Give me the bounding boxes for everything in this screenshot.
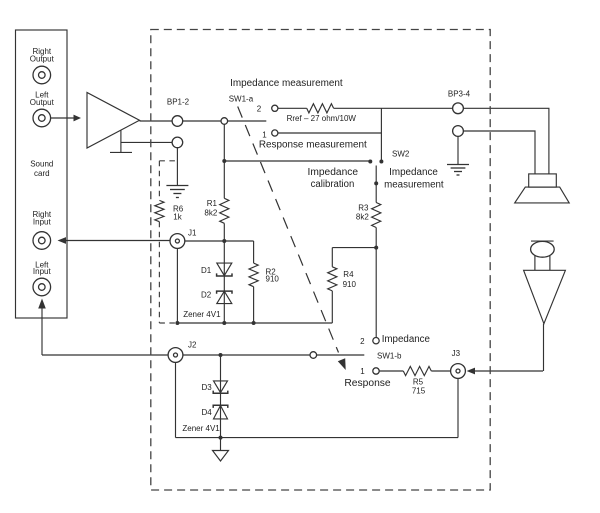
label 2 SW1-b [360,337,365,346]
binding post BP4 [453,126,464,137]
label Zener 4V1 lower [182,424,220,433]
label Impedance measurement SW2 [384,167,444,191]
svg-text:R4: R4 [343,270,354,279]
resistor R5 [403,366,431,375]
connector Left Output [33,109,51,127]
wire BP1 to SW1-a [183,120,221,122]
svg-text:BP3-4: BP3-4 [448,90,471,99]
wire amp return to BP1-2 [121,141,172,143]
wire R5 to J3 [431,370,450,372]
microphone body [524,270,566,323]
wire R4 top [331,248,333,267]
switch SW1-b common [310,352,317,359]
wire J2 left [42,354,168,356]
dashed enclosure box [151,30,490,491]
label Response position [344,378,391,389]
resistor R2 [249,263,258,287]
resistor R6 [155,200,164,221]
svg-text:D4: D4 [202,408,213,417]
wire J3 leg [457,378,459,437]
svg-text:Response: Response [344,378,391,389]
wire J1 leg [176,248,178,323]
connector J3 [451,364,466,379]
zener D2 [217,291,232,304]
wire contact1 to R5 [379,370,403,372]
svg-text:measurement: measurement [384,180,444,191]
resistor R3 [372,203,381,228]
label R6 [173,205,184,222]
wire BP4 to speaker [463,131,535,174]
node SW2 right contact [379,160,383,164]
label R4 [343,270,357,289]
wire BP3 to speaker [463,108,549,174]
label Left Output [30,91,55,108]
ground amp [110,151,132,153]
speaker LS1 magnet [529,174,557,187]
svg-text:R1: R1 [207,199,218,208]
ground BP4 [447,165,469,176]
svg-text:Input: Input [33,267,52,276]
wire contact2 to Rref [278,107,307,109]
node SW2 left contact [368,160,372,164]
wire R4 branch [332,247,376,249]
dashed inner box left upper [158,161,160,201]
node SW2 pole [374,181,378,185]
resistor R1 [220,198,229,223]
svg-text:Impedance: Impedance [382,334,431,345]
svg-text:2: 2 [360,337,365,346]
wire SW2 pole to R3 [375,183,377,202]
microphone neck [535,255,550,270]
label BP1-2 [167,98,190,107]
resistor R4 [328,267,337,291]
svg-text:1k: 1k [173,213,182,222]
wire J2 row [183,354,310,356]
label Zener 4V1 upper [183,310,221,319]
node D4 bottom [219,436,223,440]
speaker LS1 cone [515,187,570,203]
wire zener bottom [177,322,332,324]
binding post BP3 [453,103,464,114]
svg-text:calibration: calibration [311,179,355,190]
arrow to Right Input [58,237,67,244]
wire SW2 drop [380,108,382,161]
label SW2 [392,150,410,159]
switch SW1-a contact 2 [272,105,278,111]
label Impedance measurement top [230,78,343,89]
label D3 [202,383,213,392]
binding post BP2 [172,137,183,148]
label 2 SW1-a [257,105,262,114]
wire J1 row [185,240,254,242]
resistor Rref [307,104,334,113]
svg-text:BP1-2: BP1-2 [167,98,190,107]
node R1 top junction [222,159,226,163]
dashed inner box top [159,160,178,162]
wire J1 row to D1 [223,241,225,323]
svg-text:J1: J1 [188,228,197,237]
label R5 [412,378,426,396]
svg-text:R3: R3 [358,204,369,213]
arrow mic to J3 [467,368,475,375]
wire contact1 to SW2 [278,132,382,134]
svg-text:1: 1 [360,367,365,376]
binding post BP1 [172,116,183,127]
svg-text:Input: Input [33,218,52,227]
label Impedance position [382,334,431,345]
label 1 SW1-b [360,367,365,376]
arrow coupling [338,358,346,370]
node D2 bottom [222,321,226,325]
sound card box [16,30,68,318]
switch SW1-b contact 1 [373,368,379,374]
svg-text:8k2: 8k2 [356,213,369,222]
label SW1-a [229,95,254,104]
svg-text:Impedance measurement: Impedance measurement [230,78,343,89]
wire J1 to Right Input [66,240,171,242]
connector J1 [170,234,185,249]
wire Left Input leg [41,308,43,355]
wire impedance calibration [224,160,370,162]
node D3 top [219,353,223,357]
svg-text:910: 910 [266,275,280,284]
connector Right Input [33,232,51,250]
wire SW1-a common down [223,124,225,198]
switch SW1-a common [221,118,228,125]
microphone top line [531,240,554,242]
svg-text:Output: Output [30,55,55,64]
ground BP2 [166,186,188,198]
label D2 [201,291,212,300]
microphone capsule [531,241,555,257]
label D1 [201,266,212,275]
wire Rref to BP3 [334,107,453,109]
label R2 [266,268,280,284]
connector Left Input [33,278,51,296]
svg-text:SW1-a: SW1-a [229,95,254,104]
svg-text:J2: J2 [188,341,197,350]
wire R3 to contact2 [375,228,377,338]
arrow into amp [74,115,82,122]
node R2 bottom [252,321,256,325]
node D1 top [222,239,226,243]
dashed inner box left lower [158,222,160,323]
switch SW1-b contact 2 [373,338,379,344]
label J1 [188,228,197,237]
svg-text:Rref – 27 ohm/10W: Rref – 27 ohm/10W [287,114,357,123]
label Right Output [30,47,55,64]
label D4 [202,408,213,417]
switch SW2 blade [375,166,377,184]
svg-text:SW2: SW2 [392,150,410,159]
ground triangle [213,451,229,462]
wire J2 leg [175,362,177,437]
node R4 branch [374,246,378,250]
zener D1 [217,263,232,276]
connector Right Output [33,66,51,84]
arrow to Left Input [38,299,46,309]
wire amp ground stub [120,130,122,152]
dashed inner box bottom [159,322,177,324]
label SW1-b [377,352,402,361]
svg-text:Impedance: Impedance [308,167,359,178]
wire R1 to J1 row [223,223,225,241]
wire R4 bottom [331,291,333,323]
label J2 [188,341,197,350]
wire BP2 ground stub [176,148,178,186]
svg-text:Sound: Sound [30,159,53,168]
label BP3-4 [448,90,471,99]
wire bottom rail [176,437,459,439]
svg-text:R5: R5 [413,378,424,387]
svg-text:8k2: 8k2 [204,209,217,218]
wire amp output [140,120,173,122]
zener D4 [213,405,228,419]
wire Left Output to amp [51,117,74,119]
wire mic down [543,324,545,371]
ground triangle stub [220,438,222,451]
svg-text:D3: D3 [202,383,213,392]
wire J2 row to D3 [220,355,222,438]
svg-text:Zener 4V1: Zener 4V1 [182,424,220,433]
wire BP4 ground stub [457,136,459,164]
label 1 SW1-a [262,131,267,140]
label R3 [356,204,369,222]
svg-text:SW1-b: SW1-b [377,352,402,361]
label Rref value [287,114,357,123]
label Sound card [30,159,53,178]
switch SW1-a contact 1 [272,130,278,136]
op-amp A1 power amplifier [87,93,140,149]
wire R2 top [253,241,255,263]
svg-text:J3: J3 [452,349,461,358]
svg-text:D1: D1 [201,266,212,275]
svg-text:715: 715 [412,387,426,396]
label Right Input [32,210,51,227]
zener D3 [213,381,228,393]
label Impedance calibration [308,167,359,190]
node J1 leg bottom [175,321,179,325]
svg-text:910: 910 [343,280,357,289]
switch SW1-b blade [317,354,365,356]
svg-text:2: 2 [257,105,262,114]
connector J2 [168,348,183,363]
svg-text:card: card [34,169,50,178]
svg-text:D2: D2 [201,291,212,300]
label Left Input [33,261,52,277]
switch SW1-a blade [228,120,267,122]
svg-text:Zener 4V1: Zener 4V1 [183,310,221,319]
svg-text:Response measurement: Response measurement [259,140,367,151]
dashed coupling SW1 [238,107,339,353]
wire mic to J3 [475,370,544,372]
label R1 [204,199,217,218]
svg-text:Impedance: Impedance [389,167,438,178]
svg-text:1: 1 [262,131,267,140]
wire R2 bottom [253,287,255,323]
label J3 [452,349,461,358]
label Response measurement [259,140,367,151]
svg-text:Output: Output [30,98,55,107]
